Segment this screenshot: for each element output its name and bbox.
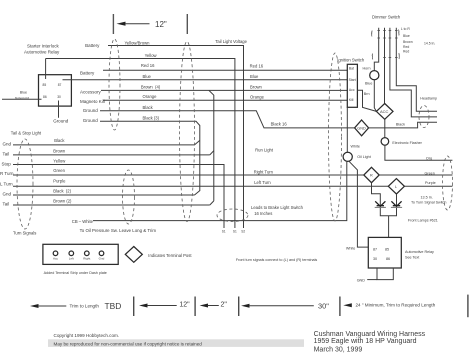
svg-text:Left: Left	[69, 257, 74, 261]
svg-text:Tail: Tail	[3, 202, 10, 207]
svg-text:R: R	[370, 174, 373, 178]
svg-text:L: L	[395, 185, 397, 189]
svg-text:Ground: Ground	[83, 108, 99, 113]
svg-text:Tail: Tail	[3, 151, 10, 156]
svg-text:Indicates Terminal Post: Indicates Terminal Post	[148, 253, 192, 258]
svg-text:Trim to Length: Trim to Length	[70, 304, 100, 309]
svg-text:Red: Red	[403, 50, 409, 54]
svg-text:Battery: Battery	[85, 43, 100, 48]
svg-text:Brown (4): Brown (4)	[141, 85, 161, 90]
svg-text:Green: Green	[53, 168, 65, 173]
svg-text:White: White	[351, 144, 360, 148]
svg-text:Black: Black	[396, 122, 405, 126]
svg-text:See Text: See Text	[405, 255, 419, 259]
svg-text:L Turn: L Turn	[0, 182, 13, 187]
svg-text:Kill: Kill	[349, 98, 354, 102]
svg-text:1959 Eagle with 18 HP Vanguard: 1959 Eagle with 18 HP Vanguard	[314, 338, 417, 345]
svg-text:Blue: Blue	[250, 74, 259, 79]
svg-text:30: 30	[373, 257, 377, 261]
svg-text:86: 86	[43, 95, 47, 99]
svg-text:Black (3): Black (3)	[143, 116, 160, 121]
svg-text:Left Turn: Left Turn	[254, 180, 271, 185]
svg-text:Headlamp: Headlamp	[420, 97, 437, 101]
svg-text:Black: Black	[54, 138, 65, 143]
svg-text:Electronic Flasher: Electronic Flasher	[392, 141, 422, 145]
svg-text:Purple: Purple	[53, 179, 66, 184]
svg-text:Gnd: Gnd	[3, 192, 12, 197]
svg-text:GND: GND	[357, 278, 366, 282]
svg-text:Run Light: Run Light	[255, 148, 274, 153]
svg-text:14.5 In.: 14.5 In.	[424, 42, 435, 46]
svg-text:Automotive Relay: Automotive Relay	[24, 50, 60, 55]
svg-text:Automotive Relay: Automotive Relay	[405, 250, 434, 254]
svg-text:Brown: Brown	[403, 40, 413, 44]
svg-text:30: 30	[57, 95, 61, 99]
svg-text:S2: S2	[241, 230, 245, 234]
svg-text:Horn: Horn	[363, 66, 371, 70]
svg-text:Yellow: Yellow	[53, 159, 66, 164]
svg-text:85: 85	[385, 247, 389, 251]
svg-text:87: 87	[373, 247, 377, 251]
svg-text:12": 12"	[155, 20, 167, 29]
svg-text:May be reproduced for non-comm: May be reproduced for non-commercial use…	[54, 341, 203, 346]
svg-text:Copyright 1999 Hobbytech.com.: Copyright 1999 Hobbytech.com.	[54, 333, 120, 338]
svg-text:Gnd: Gnd	[99, 257, 105, 261]
svg-text:Red: Red	[403, 45, 409, 49]
svg-text:Right: Right	[83, 257, 90, 261]
svg-text:Right Turn: Right Turn	[254, 169, 274, 174]
svg-text:S1: S1	[222, 230, 226, 234]
svg-text:March 30, 1999: March 30, 1999	[314, 346, 363, 353]
svg-text:White: White	[346, 246, 355, 250]
svg-text:Brn: Brn	[364, 92, 370, 96]
svg-text:Stop: Stop	[2, 161, 12, 166]
svg-text:Dimmer Switch: Dimmer Switch	[372, 14, 401, 19]
svg-text:Start: Start	[349, 78, 356, 82]
svg-text:Yellow: Yellow	[145, 53, 158, 58]
svg-text:Orange: Orange	[143, 94, 158, 99]
svg-text:24 " Minimum, Trim to Required: 24 " Minimum, Trim to Required Length	[356, 303, 436, 308]
svg-text:Blue: Blue	[143, 74, 152, 79]
svg-text:To Turn Signal Switch: To Turn Signal Switch	[411, 201, 446, 205]
svg-text:87: 87	[58, 83, 62, 87]
svg-text:S1: S1	[233, 230, 237, 234]
svg-text:Org: Org	[426, 157, 432, 161]
svg-text:R Turn: R Turn	[0, 171, 14, 176]
svg-text:Acc: Acc	[349, 88, 355, 92]
svg-text:Front Lamps #621: Front Lamps #621	[408, 219, 438, 223]
svg-text:Turn Signals: Turn Signals	[13, 230, 36, 235]
svg-text:Solenoid: Solenoid	[15, 96, 29, 100]
svg-text:Ground: Ground	[83, 118, 99, 123]
svg-text:Tail Light Voltage: Tail Light Voltage	[215, 39, 247, 44]
svg-text:CB – White: CB – White	[72, 219, 94, 224]
svg-text:Added Terminal Strip under Das: Added Terminal Strip under Dash plate	[44, 271, 107, 275]
svg-text:Gnd: Gnd	[3, 142, 12, 147]
svg-text:Ground: Ground	[53, 118, 69, 123]
svg-text:Blue: Blue	[365, 82, 372, 86]
svg-text:12": 12"	[179, 302, 190, 309]
svg-text:Brown: Brown	[250, 85, 263, 90]
svg-text:13.5 In.: 13.5 In.	[421, 195, 433, 199]
svg-text:30": 30"	[318, 302, 329, 311]
svg-text:L to R: L to R	[401, 27, 410, 31]
svg-text:Blue: Blue	[20, 90, 27, 94]
svg-text:Yellow/Brown: Yellow/Brown	[125, 40, 151, 45]
svg-text:Purple: Purple	[425, 181, 436, 185]
svg-text:Bat: Bat	[349, 66, 354, 70]
svg-text:Ignition Switch: Ignition Switch	[337, 58, 365, 63]
svg-text:Starter Interlock: Starter Interlock	[27, 44, 60, 49]
svg-text:Black 16: Black 16	[271, 121, 288, 126]
svg-text:Black (2): Black (2)	[53, 189, 71, 194]
svg-text:Tail & Stop Light: Tail & Stop Light	[11, 131, 42, 136]
svg-text:Orange: Orange	[250, 94, 265, 99]
svg-text:Blue: Blue	[403, 34, 410, 38]
svg-text:Magneto Kill: Magneto Kill	[80, 99, 105, 104]
svg-text:ACC: ACC	[380, 109, 389, 114]
svg-text:To Oil Pressure Sw. Leave Long: To Oil Pressure Sw. Leave Long & Trim	[80, 228, 157, 233]
svg-text:GND: GND	[357, 127, 366, 131]
svg-text:Brown: Brown	[53, 148, 66, 153]
svg-text:Red 16: Red 16	[250, 63, 264, 68]
svg-text:Front turn signals connect to: Front turn signals connect to (L) and (R…	[236, 258, 318, 262]
svg-text:16 Inches: 16 Inches	[254, 211, 272, 216]
svg-text:Red 16: Red 16	[141, 63, 155, 68]
svg-text:Leads to Brake Light Switch: Leads to Brake Light Switch	[251, 205, 304, 210]
svg-text:86: 86	[386, 257, 390, 261]
svg-text:Acc: Acc	[53, 257, 59, 261]
svg-text:Accessory: Accessory	[80, 89, 102, 94]
svg-text:Green: Green	[425, 172, 435, 176]
svg-text:Oil Light: Oil Light	[357, 155, 371, 159]
svg-text:2": 2"	[221, 301, 228, 308]
svg-text:Black: Black	[143, 105, 154, 110]
svg-text:Brown (2): Brown (2)	[53, 199, 72, 204]
svg-text:85: 85	[43, 83, 47, 87]
svg-text:Battery: Battery	[80, 71, 95, 76]
svg-text:TBD: TBD	[105, 301, 122, 311]
